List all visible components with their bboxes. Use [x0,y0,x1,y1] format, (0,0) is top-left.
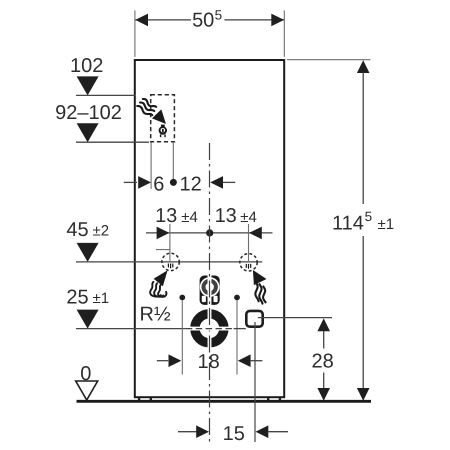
label 13 +-4 left [155,205,198,227]
dimension line 6-12 left segment [124,181,137,183]
node dot at supply position [170,179,177,186]
dimension line 13-13 [146,232,273,234]
arrowhead dim 50 left [135,14,148,27]
svg-text:±4: ±4 [240,209,257,226]
datum triangle 0 open [76,381,98,400]
dashed circle left anchor [162,253,179,270]
extension line below outlet box [254,322,256,442]
water flow wavy lines in box [137,99,156,115]
svg-text:18: 18 [197,351,219,373]
horizontal centreline through ring [186,328,234,330]
svg-text:15: 15 [223,423,245,445]
water flow arrow right [253,270,267,304]
leader line from outlet box [258,317,332,319]
datum triangle 102 [77,76,99,95]
dimension line 6-12 right segment [223,181,236,183]
label 13 +-4 right [215,205,257,227]
svg-text:R½: R½ [140,304,171,326]
extension line right anchor [248,224,250,262]
dimension line 18 left segment [157,360,168,362]
dashed circle right anchor [240,254,257,271]
dimension line 114 upper segment [362,73,364,205]
dimension line 28 upper segment [323,331,325,349]
svg-text:12: 12 [179,173,201,195]
level line 25 [76,328,186,330]
datum triangle 92-102 [77,123,99,142]
svg-text:±1: ±1 [378,216,395,233]
level line 25 right of ring [234,328,246,330]
extension line top right [287,59,371,61]
vertical centreline [209,143,211,442]
arrowhead 28 up [317,318,330,331]
arrowhead 13 left pointing right [157,227,170,240]
dimension line 114 lower segment [362,236,364,389]
label 45 +-2 [66,219,109,241]
arrowhead 28 down [317,388,330,401]
small tick left of anchor circle [156,249,170,251]
white casing horizontal centreline [187,327,232,331]
arrowhead 12 pointing left [210,176,223,189]
dimension line 15 left segment [178,431,197,433]
svg-text:±1: ±1 [93,290,110,307]
label 25 +-1 [66,287,109,309]
water flow arrow in box [152,109,166,124]
extension line from box left edge [150,142,152,189]
supply connection bracket [200,276,220,305]
label 15 [223,423,245,445]
bolt hole right [234,295,240,301]
dimension line 28 lower segment [323,373,325,390]
svg-text:5: 5 [215,7,223,22]
svg-text:92–102: 92–102 [55,102,122,124]
label 50 superscript 5 [192,7,222,31]
label 92-102 [55,102,122,124]
svg-text:6: 6 [153,173,164,195]
datum triangle 25 [77,310,99,329]
floor line [77,400,372,403]
extension line left of dim 50 [134,10,136,57]
level line 102 [76,94,136,96]
arrowhead 6 pointing right [138,176,151,189]
label 114 sup5 +-1 [332,209,394,234]
arrowhead 114 up [357,60,370,73]
svg-text:5: 5 [365,209,373,224]
stop valve icon in box [159,125,167,138]
svg-text:102: 102 [70,55,103,77]
label 0 [80,363,91,385]
flush pipe connector ring [195,314,224,343]
arrowhead 13 right pointing left [249,227,262,240]
extension line from box right edge [172,142,174,179]
outlet socket box [246,311,262,327]
label R1/2 [140,304,171,326]
svg-text:25: 25 [66,287,88,309]
extension line left anchor [169,224,171,262]
dimension line 50 left segment [135,19,191,21]
extension line below right bolt [236,301,238,375]
level line 92-102 [76,141,149,143]
bolt hole left [179,295,185,301]
arrowhead 18 right pointing left [238,354,251,367]
water flow arrow left [150,270,168,297]
arrowhead 15 right pointing left [256,425,269,438]
svg-text:28: 28 [311,350,333,372]
arrowhead 15 left pointing right [196,425,209,438]
datum triangle 45 [77,243,99,262]
svg-text:45: 45 [66,219,88,241]
svg-text:13: 13 [155,205,177,227]
node dot centre 13-13 [206,229,213,236]
dimension line 50 right segment [225,19,285,21]
label 6 [153,173,164,195]
svg-text:13: 13 [215,205,237,227]
svg-text:±2: ±2 [93,222,110,239]
dimension line 18 right segment [250,360,262,362]
dimension line 15 right segment [268,431,288,433]
svg-text:114: 114 [332,212,364,234]
arrowhead dim 50 right [271,14,284,27]
module feet [138,398,281,400]
svg-text:±4: ±4 [181,209,198,226]
arrowhead 114 down [357,388,370,401]
label 28 [311,350,333,372]
arrowhead 18 left pointing right [169,354,182,367]
white casing vertical centreline [208,274,212,351]
label 18 [197,351,219,373]
label 102 [70,55,103,77]
extension line below left bolt [181,301,183,375]
module outline [135,60,284,397]
dashed supply zone box [151,95,175,142]
svg-text:50: 50 [192,10,214,32]
level line 45 [76,261,262,263]
label 12 [179,173,201,195]
extension line right of dim 50 [283,10,285,57]
